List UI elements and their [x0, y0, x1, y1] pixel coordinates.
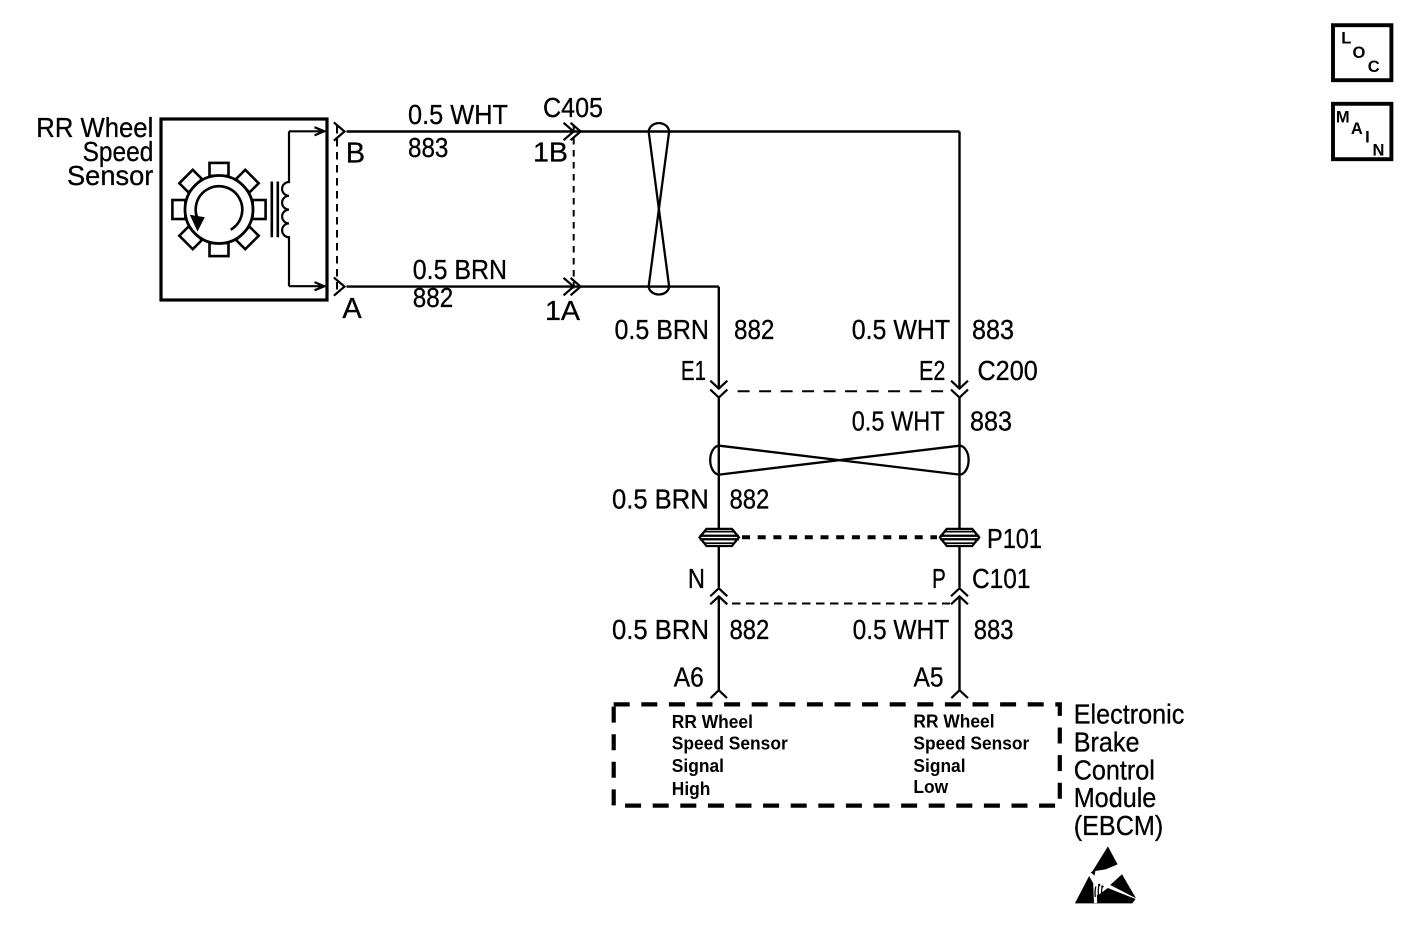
svg-text:0.5 BRN: 0.5 BRN: [612, 483, 709, 514]
svg-text:1A: 1A: [545, 295, 580, 326]
svg-text:Low: Low: [913, 776, 949, 797]
svg-text:O: O: [1353, 44, 1366, 62]
svg-text:N: N: [1373, 142, 1385, 160]
svg-text:0.5 WHT: 0.5 WHT: [852, 314, 951, 345]
svg-text:0.5 BRN: 0.5 BRN: [615, 314, 710, 345]
svg-text:E1: E1: [681, 355, 706, 386]
svg-text:(EBCM): (EBCM): [1074, 810, 1164, 842]
svg-text:A5: A5: [914, 662, 944, 693]
svg-text:C101: C101: [972, 563, 1031, 594]
svg-text:Sensor: Sensor: [67, 160, 153, 191]
svg-text:883: 883: [974, 614, 1014, 645]
svg-text:882: 882: [730, 614, 770, 645]
svg-text:C: C: [1368, 58, 1380, 76]
svg-text:Electronic: Electronic: [1074, 698, 1185, 730]
svg-text:0.5 WHT: 0.5 WHT: [852, 405, 945, 436]
svg-text:883: 883: [408, 132, 448, 163]
svg-text:882: 882: [413, 282, 453, 313]
svg-text:882: 882: [734, 314, 774, 345]
svg-text:882: 882: [730, 483, 770, 514]
svg-text:0.5 BRN: 0.5 BRN: [612, 614, 709, 645]
svg-text:C200: C200: [978, 355, 1038, 386]
svg-text:Speed Sensor: Speed Sensor: [913, 733, 1029, 754]
svg-text:0.5 BRN: 0.5 BRN: [413, 254, 507, 285]
svg-text:Signal: Signal: [913, 755, 965, 776]
svg-text:P: P: [932, 563, 946, 594]
svg-text:RR Wheel: RR Wheel: [672, 712, 753, 733]
svg-text:C405: C405: [543, 92, 603, 123]
svg-text:A: A: [1351, 120, 1363, 138]
svg-text:Speed Sensor: Speed Sensor: [672, 733, 788, 754]
svg-text:L: L: [1341, 30, 1351, 48]
svg-text:I: I: [1365, 129, 1370, 147]
svg-text:P101: P101: [987, 523, 1042, 554]
svg-text:M: M: [1336, 108, 1350, 126]
svg-text:883: 883: [972, 314, 1014, 345]
svg-text:A: A: [342, 293, 362, 325]
svg-text:Signal: Signal: [672, 756, 724, 777]
svg-text:N: N: [688, 563, 705, 594]
svg-text:High: High: [672, 778, 711, 799]
svg-text:A6: A6: [674, 662, 704, 693]
svg-text:0.5 WHT: 0.5 WHT: [853, 614, 950, 645]
svg-text:Brake: Brake: [1074, 726, 1140, 758]
svg-text:1B: 1B: [533, 137, 568, 168]
svg-text:B: B: [346, 138, 365, 170]
svg-text:E2: E2: [919, 355, 945, 386]
svg-text:883: 883: [970, 405, 1012, 436]
svg-text:0.5 WHT: 0.5 WHT: [408, 99, 508, 130]
svg-text:RR Wheel: RR Wheel: [913, 711, 994, 732]
